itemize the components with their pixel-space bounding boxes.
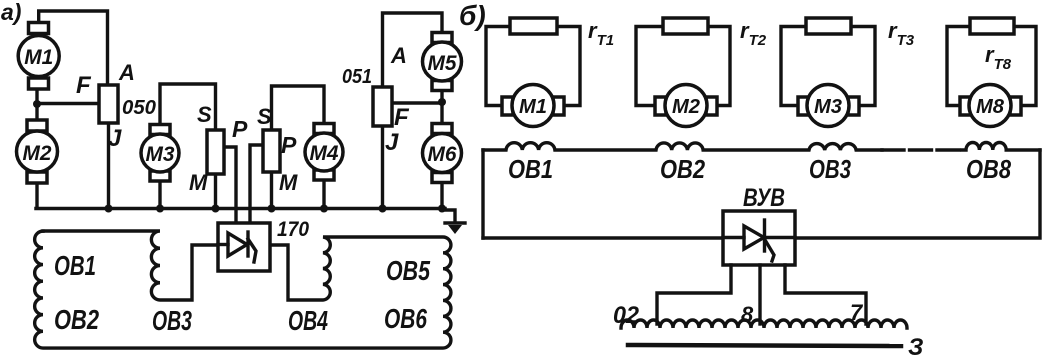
transformer winding [621,320,907,328]
bus junction dot (P1-M) [212,205,220,213]
wire M1 bottom to node F junction [35,88,38,104]
svg-text:М1: М1 [519,96,547,118]
svg-text:A: A [118,60,135,85]
motor M1 [18,23,59,90]
svg-text:а): а) [1,0,21,25]
wire resistor P2 bottom to bus [270,172,273,208]
ground arrowhead [448,225,462,234]
svg-text:02: 02 [613,302,640,329]
winding coil OB3 with top edge and wire to box 170 left [43,231,218,300]
wire resistor 051 bottom to bus [381,126,384,208]
svg-text:Р: Р [281,132,297,158]
wire M3 top loop to resistor P1 top [160,84,216,130]
bus junction dot (M6) [438,205,446,213]
wire M2 bottom to bus [35,182,38,208]
bottom bus to VUV box [483,236,723,239]
motor M8b [960,85,1021,127]
svg-text:S: S [197,102,212,127]
resistor P2 [263,130,280,172]
svg-text:ОВ6: ОВ6 [384,303,427,334]
node dot M1-M2-F [33,100,41,108]
svg-text:ОВ1: ОВ1 [54,250,96,281]
motor M5 [423,33,462,91]
svg-text:050: 050 [122,97,156,119]
svg-text:F: F [394,104,410,131]
wire M1 top loop to resistor 050 top [39,11,108,85]
unit 4 loop wires [947,27,970,106]
bottom bus from VUV box to right edge [795,150,1040,238]
svg-text:М8: М8 [976,96,1005,118]
motor M3b [798,85,859,127]
svg-text:М6: М6 [428,143,457,166]
unit 2 loop wires [636,27,663,106]
bus junction dot (M4) [320,205,328,213]
svg-text:J: J [108,125,122,152]
svg-text:7: 7 [850,300,864,325]
motor M3 [141,125,179,182]
svg-text:З: З [908,334,923,357]
svg-text:8: 8 [741,302,754,327]
resistor rT1 [510,18,557,34]
wire M3 bottom to bus [158,180,161,208]
svg-text:М2: М2 [672,96,700,118]
wire P1 wiper down to thyristor box 170 [224,147,236,223]
wires VUV to transformer winding taps [657,265,731,324]
wire P2 wiper down to thyristor box 170 [250,145,263,223]
dashed bus segment [882,148,964,151]
svg-text:ОВ2: ОВ2 [660,154,705,184]
bus junction dot (M3) [156,205,164,213]
svg-text:М3: М3 [814,96,842,118]
svg-text:М5: М5 [428,52,457,75]
wire M6 bottom to bus [440,182,443,208]
svg-text:б): б) [459,0,486,31]
svg-text:М3: М3 [146,143,175,166]
svg-text:ОВ4: ОВ4 [288,305,328,336]
unit 3 loop wires [781,27,806,106]
rail line [628,345,901,346]
svg-text:ОВ5: ОВ5 [386,255,430,286]
wire M4 bottom to bus [322,180,325,208]
svg-text:S: S [257,104,272,129]
bus junction dot (051-J) [379,205,387,213]
bus junction dot (P2-M) [268,205,276,213]
svg-text:М4: М4 [310,142,339,165]
wire junction to M2 top [35,104,38,122]
wire M5 bottom to junction [440,90,443,102]
svg-text:ОВ3: ОВ3 [809,154,851,184]
field winding bus with coils OB1 OB2 OB3 OB8 [483,143,882,150]
resistor rT2 [663,18,708,34]
svg-text:Р: Р [232,116,248,142]
wire bus end to ground [444,210,455,222]
node dot M5-M6-F2 [438,98,446,106]
wire resistor 050 bottom to bus [107,123,110,208]
svg-text:J: J [385,129,399,156]
VUV rectifier box [723,211,795,265]
wire resistor 051 right tap to node F2 [392,101,442,104]
svg-text:F: F [76,72,92,99]
wire P2 top loop to M4 top [272,86,325,130]
wire resistor 051 top loop to M5 top [383,13,443,87]
main bus (diagram a) [36,207,445,211]
coil OB8 [962,143,1040,151]
svg-text:ВУВ: ВУВ [743,184,785,212]
svg-text:М1: М1 [24,46,53,69]
svg-text:ОВ2: ОВ2 [54,304,99,335]
svg-text:М: М [279,170,298,195]
resistor 051 [373,87,392,126]
motor M2b [655,85,717,127]
svg-text:ОВ1: ОВ1 [508,154,553,184]
winding coils OB4, OB5/OB6 right edge, bottom edge, OB1/OB2 left edge [35,231,451,348]
thyristor box 170 [218,223,270,271]
svg-text:ОВ8: ОВ8 [966,154,1011,184]
wire resistor P1 bottom to bus [214,174,217,208]
resistor rT8 [970,18,1014,34]
motor M6 [423,124,462,183]
unit 1 loop wires [486,27,510,106]
ground bar [445,221,465,224]
motor M1b [502,85,564,127]
svg-text:М2: М2 [23,142,52,165]
wire junction to M6 top [440,102,443,124]
resistor P1 [207,130,224,174]
left edge of winding loop [481,150,484,238]
resistor 050 [99,85,118,123]
wire node F to resistor 050 left tap [37,102,99,105]
bus junction dot (050-J) [105,205,113,213]
motor M2 [17,120,58,183]
svg-text:051: 051 [342,66,372,88]
svg-text:170: 170 [277,218,309,241]
resistor rT3 [806,18,851,34]
svg-text:ОВ3: ОВ3 [152,305,192,336]
svg-text:М: М [189,170,208,195]
svg-text:A: A [390,43,407,68]
motor M4 [305,124,343,181]
